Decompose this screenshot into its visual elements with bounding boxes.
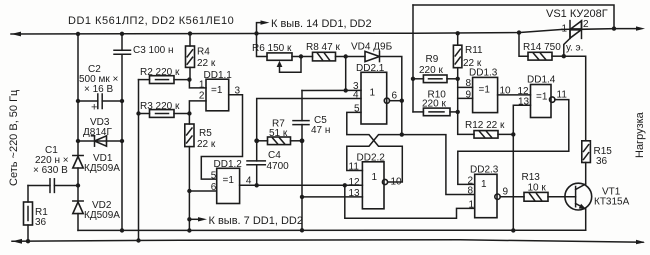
node: R2 right / R4 bottom junction [187,77,191,81]
svg-text:6: 6 [392,90,398,101]
svg-text:R9: R9 [426,54,439,65]
node: K vyv 14 branch on rail [254,31,258,35]
node: R14 branch on rail [517,30,521,34]
wire: DD1.2 pin 6 to R5 column [189,190,216,192]
wire: mains input arrow bottom left [12,239,22,244]
svg-text:=1: =1 [211,85,223,96]
wire: top right rail of VS1 loop [413,5,614,29]
node: R10 right junction [456,110,460,114]
svg-text:47 н: 47 н [311,125,330,136]
wire: bottom mains rail [12,240,643,242]
triac VS1 [562,28,570,30]
node: VD3 right junction [120,139,124,143]
svg-text:R6 150 к: R6 150 к [252,43,292,54]
transistor VT1 [565,183,592,210]
node: DD2.3 pin1 branch on output4 wire [343,183,347,187]
svg-text:R12 22 к: R12 22 к [465,120,505,131]
svg-text:220 к: 220 к [422,99,446,110]
resistor R8 [313,52,336,61]
wire: common rail [78,229,586,231]
wire: column down to R12 left [458,112,474,134]
wire: DD2.3 pin 1 link riser [345,185,475,218]
svg-text:у. э.: у. э. [566,43,583,54]
svg-text:12: 12 [518,86,530,97]
nor-gate DD2.3 [475,174,497,217]
wire: top mains rail [11,29,562,34]
node: column on common rail [187,228,191,232]
svg-text:2: 2 [583,19,589,30]
wire: DD1.3 pin 9 branch [458,97,473,99]
svg-text:13: 13 [349,188,361,199]
wire: mains input arrow top left [11,32,21,37]
nor-gate DD2.1 [361,72,387,124]
svg-text:VS1 КУ208Г: VS1 КУ208Г [546,8,608,20]
capacitor C5 [293,120,309,122]
svg-text:9: 9 [466,90,472,101]
wire: R2/R3 left column down to mains rail [138,80,140,241]
svg-text:12: 12 [349,177,361,188]
node: top rail / C2 column junction [76,32,80,36]
node: R3 left tap on column [136,111,140,115]
svg-text:R8 47 к: R8 47 к [306,42,340,53]
resistor R12 [474,131,498,139]
svg-text:DD1.1: DD1.1 [204,70,233,81]
node: gate junction [562,54,566,58]
svg-text:Д814Г: Д814Г [83,127,112,138]
resistor R7 [268,137,291,145]
svg-text:22 к: 22 к [197,58,216,69]
svg-text:R11: R11 [465,45,483,56]
wire: C5 R7 column [301,91,303,121]
wire: DD2.1 pin 4 from R7/C4 node [257,99,361,141]
wire: DD1.1 output 3 to DD1.2 pin 5 [201,95,242,179]
node: R7 right / C5 junction [300,138,305,143]
svg-text:КД509А: КД509А [84,210,120,221]
svg-text:36: 36 [596,156,608,167]
wire: DD1.4 pin 13 to ground column [513,105,530,230]
wire: load arrow bottom right [636,240,645,244]
op-gate DD1.1 [206,79,229,111]
svg-text:DD1.2: DD1.2 [214,159,243,170]
node: R7 left / C4 / pin4 junction [254,138,259,143]
resistor R11 [457,33,459,45]
node: output6 on VD4 column [400,99,404,103]
wire: DD2.1 pin 5 to cross [347,112,403,182]
resistor R2 [139,79,150,81]
svg-text:22 к: 22 к [197,139,216,150]
node: C2 right junction [120,99,124,103]
node: top rail / C3 column junction [120,32,124,36]
svg-text:+: + [91,102,97,114]
wiper of R6 [277,61,283,67]
wire: cross wire to DD2.3 pin 8 [402,135,475,195]
svg-text:C4: C4 [268,150,281,161]
node: R4 top on rail [188,31,192,35]
svg-text:9: 9 [503,187,509,198]
wire: DD2.2 pin 13 from C5 column [302,196,362,198]
node: R8 right / pin3 branch [344,54,348,58]
svg-text:DD1.4: DD1.4 [527,75,556,86]
svg-text:К выв. 7 DD1, DD2: К выв. 7 DD1, DD2 [209,215,303,227]
zener diode VD3 [78,140,122,142]
wire: DD1.2 output 4 to DD2.2 pin 12 [240,184,363,186]
node: R9 left on sync column [411,77,415,81]
wire: left supply column x78 (rail to C2 wire) [77,34,79,101]
svg-text:36: 36 [35,217,47,228]
svg-text:Нагрузка: Нагрузка [634,111,646,158]
svg-text:2: 2 [199,90,205,101]
node: R6 right / R8 left junction [292,56,313,58]
svg-text:10: 10 [391,177,403,188]
svg-text:× 630 В: × 630 В [33,165,68,176]
node: VD3 left junction [76,139,80,143]
wire: DD2.2 pin 11 to cross [347,135,402,171]
svg-text:DD1 К561ЛП2, DD2 К561ЛЕ10: DD1 К561ЛП2, DD2 К561ЛЕ10 [68,15,234,27]
svg-text:11: 11 [349,162,360,173]
node: pin13 branch on C5 column [300,195,304,199]
wire: to DD1.1 pin 1 [189,80,206,88]
capacitor C1 [28,185,50,187]
svg-text:DD1.3: DD1.3 [469,68,498,79]
svg-text:220 к: 220 к [419,65,443,76]
svg-text:=1: =1 [536,92,548,103]
svg-text:КД509А: КД509А [84,163,120,174]
svg-text:VD4 Д9Б: VD4 Д9Б [351,42,393,53]
node: ground column on common rail [511,228,515,232]
svg-text:R2 220 к: R2 220 к [140,67,180,78]
wire: x78 column C2 wire to VD3 wire [77,101,79,141]
node: C1 right / VD1-VD2 junction [76,183,80,187]
capacitor C4 [256,141,258,161]
node: R1 bottom on mains rail [26,239,30,243]
svg-text:R5: R5 [199,128,212,139]
resistor R13 [500,196,524,198]
svg-text:=1: =1 [223,175,235,186]
node: pin7 branch [187,217,191,221]
nor-gate DD2.2 [362,162,384,209]
wire: DD1.3 pin 8 branch [458,86,473,88]
svg-text:8: 8 [466,78,472,89]
svg-text:1: 1 [370,88,376,99]
svg-text:К выв. 14 DD1, DD2: К выв. 14 DD1, DD2 [271,18,372,30]
node: R3 right / R5 top junction [187,111,191,115]
resistor R4 [189,34,191,46]
resistor R1 [27,186,29,203]
wire: VD4 cathode down to DD2.1 output column [380,57,402,135]
svg-text:4700: 4700 [267,161,290,172]
diode VD4 [346,56,365,58]
node: R2R3 column on mains rail [136,238,140,242]
wire: to pin 7 arrow [189,218,199,220]
wire: x122 column down to common rail [121,141,123,230]
wire: DD1.3 output 10 to DD1.4 pin 12 [498,94,531,96]
resistor R5 [188,114,190,125]
node: R11 top on rail [456,31,460,35]
svg-text:1: 1 [469,199,475,210]
svg-text:DD2.1: DD2.1 [356,63,385,74]
svg-text:5: 5 [211,170,217,181]
diode VD1 [77,141,79,156]
node: R11 bottom / R9 right junction [456,77,460,81]
node: C2 left junction [76,99,80,103]
svg-text:10 к: 10 к [528,182,547,193]
node: C4 bottom on output4 wire [255,183,259,187]
svg-text:Сеть ~220 В, 50 Гц: Сеть ~220 В, 50 Гц [8,89,20,186]
diode VD2 [77,186,79,202]
wire: DD2.1 output 6 to column [390,100,402,102]
wire: to DD1.1 pin 2 [189,101,206,114]
node: load branch top right [612,26,616,30]
potentiometer R6 [257,33,268,56]
svg-text:× 16 В: × 16 В [84,84,114,95]
node: x122 column on common rail [120,228,124,232]
resistor R15 [582,141,591,163]
wire: divider column down [457,79,459,112]
resistor R9 [413,78,423,80]
svg-text:R14 750: R14 750 [523,42,561,53]
wire: mains sync column x413 [412,5,414,112]
wire: DD2.1 pin 3 [302,89,361,91]
wire: VS1 gate [564,38,570,56]
svg-text:R4: R4 [197,47,210,58]
node: C5 column on common rail [300,228,304,232]
resistor R3 [139,113,150,115]
wire: gate node to R15 riser [564,56,586,141]
node: R12 right on ground column [511,132,515,136]
svg-text:С3 100 н: С3 100 н [133,45,174,56]
wire: to pin 14 arrow [257,23,262,34]
svg-text:4: 4 [353,90,359,101]
resistor R10 [413,111,423,113]
wire: x122 column C2 wire to VD3 wire [121,101,123,141]
wire: load arrow top right [614,28,637,30]
svg-text:R3 220 к: R3 220 к [140,101,180,112]
node: R5 bottom / pin6 junction [187,189,191,193]
svg-text:1: 1 [372,172,378,183]
wire: R5 column down to common rail [188,191,190,231]
capacitor C3 [121,34,123,51]
svg-text:8: 8 [468,186,474,197]
node: pin3 riser junction [344,88,348,92]
node: cross wire / VD4 column junction [400,132,404,136]
wire: DD1.4 output 11 to DD2.3 pin 2 [458,100,569,185]
resistor R14 [519,33,528,57]
op-gate DD1.2 [217,168,240,203]
svg-text:КТ315А: КТ315А [594,197,630,208]
svg-text:1: 1 [481,179,487,190]
xor-gate DD1.4 [531,85,552,118]
xor-gate DD1.3 [473,77,498,112]
capacitor C2 [78,100,98,102]
svg-text:1: 1 [562,24,568,35]
svg-text:51 к: 51 к [269,128,288,139]
svg-text:13: 13 [518,97,530,108]
svg-text:DD2.2: DD2.2 [357,152,386,163]
svg-text:DD2.3: DD2.3 [470,165,499,176]
svg-text:1: 1 [199,79,205,90]
wire: pin3 riser [345,57,347,91]
svg-text:=1: =1 [479,85,491,96]
